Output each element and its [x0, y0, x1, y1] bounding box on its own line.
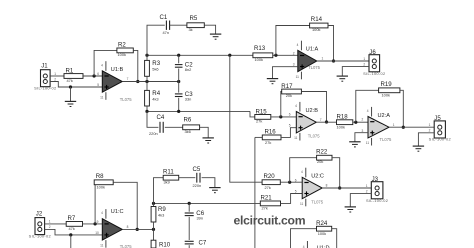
wire R2 feedback right leg [133, 50, 138, 81]
wire R22 feedback right leg [332, 158, 340, 188]
wire C6 top stub [188, 203, 190, 211]
svg-text:5: 5 [295, 189, 297, 193]
resistor R5 [187, 15, 204, 32]
svg-text:4: 4 [297, 43, 299, 47]
svg-text:U2:B: U2:B [306, 108, 319, 114]
wire R3 bottom stub [146, 76, 148, 81]
svg-text:TL075: TL075 [120, 244, 133, 248]
svg-text:100k: 100k [312, 27, 320, 32]
wire R20 to U2:C pin 6 [280, 181, 302, 183]
node R17 tap [279, 115, 282, 118]
node R4 bottom junction [145, 110, 148, 113]
svg-text:TL075: TL075 [311, 199, 324, 204]
svg-text:J1: J1 [41, 63, 48, 70]
connector J2 [29, 211, 51, 239]
node C6 top junction [188, 202, 191, 205]
wire U1:A pin3 to ground [273, 67, 298, 79]
ground [203, 138, 214, 143]
svg-text:J2: J2 [36, 211, 43, 218]
svg-text:2: 2 [49, 225, 51, 229]
resistor R11 [163, 169, 179, 185]
svg-text:3k: 3k [189, 27, 193, 32]
svg-text:SIL-100-02: SIL-100-02 [363, 71, 385, 76]
wire C5 to ground [202, 178, 215, 188]
svg-text:R24: R24 [316, 220, 328, 227]
svg-text:11: 11 [300, 202, 304, 206]
svg-text:220n: 220n [149, 131, 158, 136]
resistor R2 [117, 42, 133, 57]
svg-text:8: 8 [127, 225, 129, 229]
svg-text:U2:C: U2:C [311, 174, 324, 180]
resistor R3 [145, 60, 161, 77]
wire J1 pin1 to R1 [50, 75, 64, 77]
node R22 to output [338, 186, 341, 189]
node R8 tap [93, 222, 96, 225]
wire R3 top stub [146, 55, 148, 60]
wire R19 feedback right leg [400, 90, 403, 127]
svg-text:2: 2 [54, 77, 56, 81]
svg-text:TL075: TL075 [308, 134, 321, 139]
wire R5 to ground [204, 25, 215, 34]
resistor R15 [255, 108, 271, 123]
svg-text:J6: J6 [369, 49, 376, 56]
node ground tap [69, 85, 72, 88]
resistor R16 [262, 129, 281, 145]
svg-text:33n: 33n [185, 97, 192, 102]
wire low rail to R21 [154, 202, 261, 204]
node R8 to output [136, 228, 139, 231]
wire jog to R15 [250, 111, 255, 117]
capacitor C3 [175, 91, 193, 102]
svg-text:20k: 20k [317, 159, 323, 164]
svg-text:10: 10 [95, 231, 99, 235]
wire R17 feedback left leg [280, 92, 283, 117]
svg-text:6: 6 [289, 113, 291, 117]
svg-text:TL075: TL075 [308, 65, 321, 70]
svg-text:20k: 20k [286, 93, 292, 98]
wire R4 bottom stub [146, 106, 148, 111]
ground [209, 188, 220, 193]
resistor R10 [151, 240, 171, 248]
capacitor C4 [149, 114, 165, 136]
svg-text:U1:B: U1:B [111, 67, 124, 73]
wire R15 to U2:B pin 6 [271, 116, 297, 118]
svg-text:2: 2 [362, 118, 364, 122]
wire J2 pin2 to U1:C pin 10 [45, 229, 103, 235]
wire C7 bottom stub [188, 245, 190, 248]
svg-text:R2: R2 [118, 42, 126, 49]
wire R24 right leg [332, 229, 337, 248]
ground [65, 87, 76, 107]
svg-text:6: 6 [295, 178, 297, 182]
wire bottom rail [147, 110, 250, 112]
svg-text:100k: 100k [255, 57, 263, 62]
resistor R8 [94, 173, 113, 190]
node R17 to output [325, 120, 328, 123]
wire R16 to U2:B pin 5 [281, 128, 296, 138]
wire C2 top stub [178, 55, 180, 63]
svg-text:1: 1 [366, 184, 368, 188]
node R2 to output [136, 80, 139, 83]
wire R22 feedback left leg [290, 158, 317, 183]
svg-text:2: 2 [366, 189, 368, 193]
wire R19 feedback left leg [356, 90, 379, 122]
svg-text:27k: 27k [265, 185, 271, 190]
svg-text:2: 2 [293, 51, 295, 55]
svg-text:47k: 47k [67, 78, 73, 83]
wire mid feed vertical to R20 [230, 55, 262, 182]
wire U2:A output to J5 [389, 126, 434, 128]
resistor R7 [66, 215, 82, 231]
ground [210, 34, 221, 39]
svg-text:47n: 47n [163, 30, 170, 35]
wire U1:B output row [122, 81, 178, 83]
svg-text:1: 1 [49, 220, 51, 224]
svg-text:R14: R14 [311, 16, 323, 23]
wire ground stem [70, 235, 72, 248]
svg-text:R5: R5 [190, 15, 198, 22]
svg-text:5: 5 [97, 83, 99, 87]
svg-text:R18: R18 [337, 114, 349, 121]
wire U2:A pin3 to ground [355, 133, 368, 142]
wire top rail [147, 54, 253, 56]
wire R6 to ground [200, 127, 209, 137]
node R19 to output [402, 126, 405, 129]
svg-text:R13: R13 [254, 45, 266, 52]
svg-text:9: 9 [97, 220, 99, 224]
wire C3 bottom stub [178, 98, 180, 112]
wire C3 top stub [178, 82, 180, 93]
op-amp U2:B [289, 102, 322, 141]
svg-text:11: 11 [100, 96, 104, 100]
svg-text:8: 8 [326, 184, 328, 188]
svg-text:5: 5 [289, 124, 291, 128]
svg-text:47k: 47k [69, 226, 75, 231]
node R14 to output [332, 59, 335, 62]
svg-text:27k: 27k [262, 205, 268, 210]
op-amp U1:D partial [303, 241, 330, 248]
node R3-R4 junction [145, 80, 148, 83]
ground [267, 79, 278, 84]
svg-text:1: 1 [363, 57, 365, 61]
svg-text:R11: R11 [163, 169, 174, 176]
wire U2:B output row [316, 121, 336, 123]
svg-text:4k3: 4k3 [152, 96, 158, 101]
svg-text:elcircuit.com: elcircuit.com [234, 214, 306, 228]
svg-text:SIL-100-02: SIL-100-02 [366, 198, 388, 203]
svg-text:C7: C7 [199, 239, 207, 246]
wire C4 to R6 [165, 126, 183, 128]
capacitor C7 [185, 239, 207, 246]
op-amp U1:A [293, 41, 324, 80]
svg-text:3k6: 3k6 [185, 129, 191, 134]
node C2 top junction [177, 54, 180, 57]
wire R10 top stub [153, 229, 155, 240]
node C1/R3 junction [145, 54, 148, 57]
svg-text:1: 1 [429, 123, 431, 127]
svg-text:C1: C1 [160, 14, 168, 21]
ground [349, 142, 360, 147]
svg-text:4: 4 [101, 63, 103, 67]
svg-text:1: 1 [54, 72, 56, 76]
wire R8 feedback left leg [94, 185, 96, 224]
capacitor C2 [175, 62, 193, 73]
resistor R14 [310, 16, 328, 32]
wire R16 feed [255, 136, 262, 138]
svg-text:R10: R10 [159, 241, 171, 248]
wire R4 top stub [146, 82, 148, 91]
node R11/R9 junction [152, 202, 155, 205]
svg-text:2: 2 [363, 62, 365, 66]
resistor R21 [260, 195, 280, 211]
svg-text:R16: R16 [265, 129, 277, 136]
connector J1 [34, 63, 56, 91]
svg-text:4: 4 [301, 170, 303, 174]
svg-text:11: 11 [366, 141, 370, 145]
svg-text:39n: 39n [197, 216, 204, 221]
svg-text:R1: R1 [66, 67, 74, 74]
svg-text:U1:C: U1:C [111, 209, 124, 215]
svg-text:SIL-100-02: SIL-100-02 [34, 85, 56, 90]
svg-text:3: 3 [293, 63, 295, 67]
wire R14 feedback right leg [328, 26, 334, 62]
svg-text:4: 4 [367, 109, 369, 113]
resistor R18 [337, 114, 353, 130]
svg-text:SIL-100-02: SIL-100-02 [429, 137, 451, 142]
svg-text:5k6: 5k6 [152, 66, 158, 71]
op-amp U2:C [295, 168, 328, 207]
wire R21 to U2:C pin 5 [281, 194, 303, 204]
wire R11 to C5 [179, 177, 196, 179]
capacitor C5 [193, 166, 202, 188]
svg-text:R19: R19 [381, 81, 393, 88]
wire J2 pin1 to R7 [45, 223, 67, 225]
svg-text:R20: R20 [264, 173, 276, 180]
svg-text:100k: 100k [97, 185, 105, 190]
svg-text:4: 4 [101, 211, 103, 215]
node R19 tap [354, 121, 357, 124]
svg-text:4k3: 4k3 [158, 212, 164, 217]
svg-text:R22: R22 [316, 149, 328, 156]
svg-text:R7: R7 [68, 215, 76, 222]
svg-text:7: 7 [127, 77, 129, 81]
wire R2 feedback left leg [94, 50, 117, 76]
svg-text:J3: J3 [372, 176, 379, 183]
svg-text:220n: 220n [193, 183, 202, 188]
svg-text:U2:A: U2:A [378, 113, 391, 119]
wire R7 to U1:C pin 9 [83, 223, 103, 225]
ground [413, 146, 424, 151]
capacitor C1 [160, 14, 170, 35]
resistor R4 [145, 90, 161, 106]
wire C2 bottom stub [178, 69, 180, 82]
connector J6 [363, 49, 385, 76]
svg-text:11: 11 [100, 243, 104, 247]
svg-text:8n2: 8n2 [185, 67, 192, 72]
wire R18 to U2:A pin 2 [353, 121, 368, 123]
svg-text:4: 4 [295, 104, 297, 108]
resistor R19 [379, 81, 400, 97]
wire C1 branch left leg [147, 25, 165, 55]
resistor R6 [183, 117, 200, 134]
resistor R20 [262, 173, 280, 190]
node R14 tap [274, 54, 277, 57]
svg-text:2: 2 [429, 129, 431, 133]
op-amp U1:C [95, 209, 132, 248]
svg-text:U1:A: U1:A [306, 47, 319, 53]
wire R9 top stub [153, 203, 155, 206]
svg-text:100k: 100k [382, 92, 390, 97]
svg-text:SIL-100-02: SIL-100-02 [29, 233, 51, 238]
svg-text:R8: R8 [96, 173, 104, 180]
ground [337, 76, 348, 81]
svg-text:7: 7 [320, 118, 322, 122]
node C3 bottom junction [177, 110, 180, 113]
svg-text:100k: 100k [318, 231, 326, 236]
svg-text:100k: 100k [337, 124, 345, 129]
wire C4 branch [147, 111, 158, 127]
wire U1:D feed vertical [254, 137, 256, 248]
ground [345, 207, 356, 212]
svg-text:100k: 100k [118, 52, 126, 57]
wire R8 feedback right leg [113, 182, 137, 229]
svg-text:C5: C5 [193, 166, 201, 173]
wire R17 feedback right leg [301, 92, 326, 123]
wire R9 bottom stub [153, 222, 155, 229]
svg-text:R21: R21 [261, 195, 273, 202]
svg-text:C4: C4 [157, 114, 165, 121]
svg-text:27k: 27k [256, 119, 262, 124]
svg-text:27k: 27k [265, 140, 271, 145]
capacitor C6 [185, 210, 205, 221]
svg-text:R6: R6 [184, 117, 192, 124]
wire J3 pin2 to ground [350, 194, 371, 207]
wire R1 to U1:B pin 6 [83, 75, 102, 77]
svg-text:R17: R17 [281, 83, 293, 90]
svg-text:1: 1 [393, 123, 395, 127]
node ground tap [69, 233, 72, 236]
svg-text:11: 11 [296, 75, 300, 79]
resistor R9 [151, 206, 166, 222]
op-amp U2:A [362, 107, 395, 146]
svg-text:6: 6 [97, 72, 99, 76]
node C2-C3 junction [177, 80, 180, 83]
wire J6 pin2 to ground [342, 67, 369, 76]
op-amp U1:B [97, 61, 132, 102]
svg-text:J5: J5 [434, 115, 441, 122]
svg-text:3k9: 3k9 [164, 180, 170, 185]
wire R24 left leg [291, 229, 317, 248]
svg-text:TL075: TL075 [120, 97, 133, 102]
connector J3 [366, 176, 389, 203]
node R9 bottom junction [152, 228, 155, 231]
svg-text:11: 11 [294, 136, 298, 140]
wire J1 pin2 to U1:B pin 5 [50, 82, 102, 88]
wire R11 left leg [154, 178, 164, 204]
node R22 tap [288, 181, 291, 184]
resistor R24 [316, 220, 332, 236]
resistor R22 [316, 149, 332, 164]
resistor R17 [281, 83, 301, 98]
wire U2:C output to J3 [322, 187, 371, 189]
resistor R1 [64, 67, 83, 83]
wire J5 pin2 to ground [418, 133, 434, 146]
wire U1:C output row [122, 228, 153, 230]
node R2 tap [92, 74, 95, 77]
svg-text:TL075: TL075 [380, 137, 393, 142]
wire C6 to C7 [188, 217, 190, 240]
resistor R13 [253, 45, 273, 62]
svg-text:R15: R15 [256, 108, 268, 115]
svg-text:1: 1 [322, 57, 324, 61]
wire R14 feedback left leg [276, 26, 310, 56]
connector J5 [429, 115, 451, 142]
wire top rail right of R13 [273, 54, 298, 56]
node mid-feed junction [228, 54, 231, 57]
wire C1 to R5 [170, 24, 187, 26]
wire U1:A output to J6 [317, 60, 369, 62]
